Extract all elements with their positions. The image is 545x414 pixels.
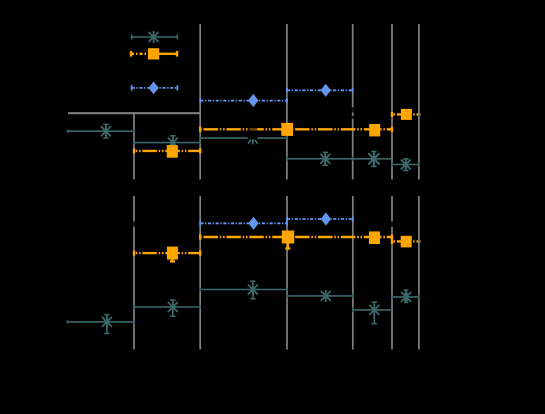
black notch x5 bottom [391,221,393,227]
blue segment B1 [200,98,287,103]
blue diamond B3 [248,217,258,230]
orange square O6a [401,236,412,248]
black overlay blob top [248,124,257,134]
orange square O5b [369,231,380,244]
gray vline x1 bottom [133,196,135,350]
teal segment T1 [68,124,134,137]
gray vline x3 bottom [286,196,288,350]
teal segment T3 [200,137,287,140]
teal segment T8 [134,300,200,316]
orange segment O5 [200,234,392,248]
gray vline x4 bottom [352,196,354,350]
blue diamond B2 [321,84,331,97]
orange segment O2 [200,127,392,132]
black notch x1 bottom [133,221,135,226]
orange square O3a [401,109,412,120]
orange square O4a [167,247,178,260]
teal segment T9 [200,281,287,299]
teal segment T5 [353,152,392,167]
orange segment O6 [392,239,421,244]
gray vline x3 top [286,24,288,180]
gray vline x4 top [352,24,354,180]
gray vline x2 bottom [199,196,201,350]
blue diamond B1 [248,94,258,107]
orange square O1 [167,145,178,158]
gray vline x1 top [133,113,135,179]
teal segment T4 [287,152,353,165]
orange square O5a [282,231,294,244]
blue segment B4 [287,217,353,222]
teal segment T11 [353,302,392,324]
gray vline x6 top [418,24,420,180]
legend entry orange [131,51,177,57]
orange segment O3 [392,112,421,117]
orange segment O4 [134,251,200,262]
teal segment T12 [392,290,419,303]
teal segment T7 [68,315,134,334]
teal segment T6 [392,158,419,170]
blue diamond B4 [321,212,331,225]
blue segment B3 [200,221,287,226]
teal half asterisk T3 [248,139,258,144]
gray vline x6 bottom [418,196,420,350]
legend entry blue [132,85,178,90]
blue segment B2 [287,88,353,93]
teal segment T10 [287,290,353,302]
orange segment O1 [134,148,200,153]
orange square O2b [369,124,380,136]
gray vline x5 top [391,24,393,180]
black notch x4 top [352,107,354,112]
teal segment T2 [134,136,200,150]
orange square O2a [281,123,293,136]
gray vline x5 bottom [391,196,393,350]
gray vline x2 top [199,24,201,180]
legend entry teal [132,31,178,43]
gray true line top [68,112,200,114]
